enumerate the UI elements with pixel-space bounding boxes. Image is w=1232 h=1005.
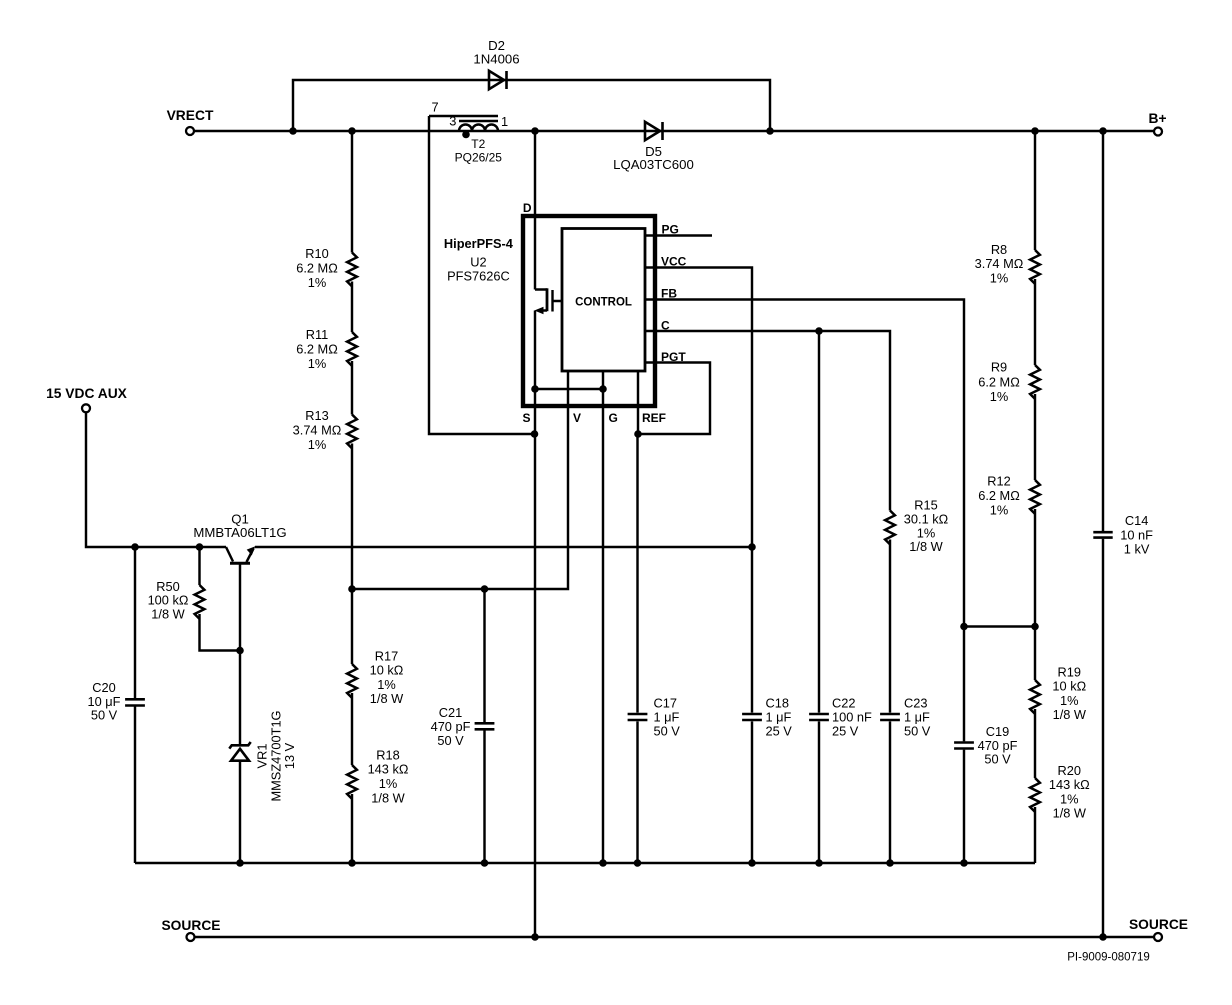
svg-text:VRECT: VRECT [167, 108, 214, 123]
svg-text:1%: 1% [308, 356, 327, 371]
svg-text:C23: C23 [904, 696, 927, 711]
svg-text:R17: R17 [375, 648, 398, 663]
svg-text:S: S [522, 411, 530, 425]
svg-text:R18: R18 [376, 747, 399, 762]
svg-text:PGT: PGT [661, 350, 686, 364]
svg-text:VCC: VCC [661, 255, 687, 269]
svg-text:1%: 1% [379, 776, 398, 791]
svg-text:B+: B+ [1148, 111, 1166, 126]
svg-text:PI-9009-080719: PI-9009-080719 [1067, 952, 1149, 964]
svg-text:1%: 1% [990, 389, 1009, 404]
svg-text:1%: 1% [990, 271, 1009, 286]
svg-text:7: 7 [431, 100, 438, 115]
svg-text:C: C [661, 319, 670, 333]
svg-text:6.2 MΩ: 6.2 MΩ [978, 488, 1020, 503]
svg-text:50 V: 50 V [904, 724, 931, 739]
svg-text:1%: 1% [1060, 791, 1079, 806]
svg-text:100 kΩ: 100 kΩ [148, 593, 189, 608]
svg-text:1%: 1% [377, 677, 396, 692]
svg-text:1/8 W: 1/8 W [1053, 707, 1087, 722]
svg-text:FB: FB [661, 287, 677, 301]
svg-text:C14: C14 [1125, 513, 1148, 528]
svg-text:CONTROL: CONTROL [575, 297, 632, 309]
svg-text:T2: T2 [471, 137, 485, 151]
svg-text:143 kΩ: 143 kΩ [1049, 777, 1090, 792]
svg-text:1N4006: 1N4006 [473, 52, 519, 67]
svg-text:10 kΩ: 10 kΩ [370, 663, 404, 678]
svg-text:G: G [609, 411, 618, 425]
svg-text:1%: 1% [990, 502, 1009, 517]
svg-text:1%: 1% [1060, 693, 1079, 708]
svg-text:R12: R12 [987, 474, 1010, 489]
svg-text:R9: R9 [991, 360, 1007, 375]
svg-text:1 μF: 1 μF [904, 709, 930, 724]
svg-text:50 V: 50 V [654, 724, 681, 739]
svg-text:PFS7626C: PFS7626C [447, 269, 510, 284]
svg-text:1/8 W: 1/8 W [151, 607, 185, 622]
svg-text:3: 3 [449, 114, 456, 129]
svg-text:6.2 MΩ: 6.2 MΩ [296, 261, 338, 276]
svg-text:50 V: 50 V [984, 752, 1011, 767]
svg-text:6.2 MΩ: 6.2 MΩ [296, 342, 338, 357]
svg-text:1 kV: 1 kV [1124, 541, 1150, 556]
svg-text:1/8 W: 1/8 W [370, 691, 404, 706]
svg-text:1 μF: 1 μF [654, 709, 680, 724]
svg-text:1: 1 [501, 114, 508, 129]
svg-text:C20: C20 [92, 680, 115, 695]
svg-text:MMBTA06LT1G: MMBTA06LT1G [193, 525, 286, 540]
svg-text:PQ26/25: PQ26/25 [455, 151, 503, 165]
svg-text:1 μF: 1 μF [766, 709, 792, 724]
svg-text:470 pF: 470 pF [431, 719, 471, 734]
svg-text:R13: R13 [305, 408, 328, 423]
svg-text:25 V: 25 V [832, 724, 859, 739]
svg-text:C21: C21 [439, 705, 462, 720]
svg-text:HiperPFS-4: HiperPFS-4 [444, 236, 514, 251]
svg-text:10 kΩ: 10 kΩ [1052, 679, 1086, 694]
svg-text:470 pF: 470 pF [978, 738, 1018, 753]
svg-text:C18: C18 [766, 696, 789, 711]
svg-text:SOURCE: SOURCE [1129, 917, 1188, 932]
svg-text:C19: C19 [986, 724, 1009, 739]
svg-text:1/8 W: 1/8 W [1053, 806, 1087, 821]
svg-text:1%: 1% [308, 437, 327, 452]
svg-text:13 V: 13 V [282, 742, 297, 769]
svg-text:R15: R15 [914, 497, 937, 512]
svg-text:V: V [573, 411, 581, 425]
svg-text:SOURCE: SOURCE [161, 918, 220, 933]
svg-text:U2: U2 [470, 255, 486, 270]
svg-text:100 nF: 100 nF [832, 709, 872, 724]
svg-text:D: D [523, 201, 532, 215]
svg-text:C17: C17 [654, 696, 677, 711]
svg-text:50 V: 50 V [437, 733, 464, 748]
svg-text:PG: PG [662, 223, 679, 237]
svg-text:1/8 W: 1/8 W [909, 539, 943, 554]
svg-text:143 kΩ: 143 kΩ [368, 762, 409, 777]
svg-text:50 V: 50 V [91, 708, 118, 723]
svg-text:REF: REF [642, 411, 666, 425]
svg-text:LQA03TC600: LQA03TC600 [613, 157, 694, 172]
svg-text:R19: R19 [1058, 664, 1081, 679]
svg-text:R11: R11 [306, 327, 329, 342]
svg-text:1/8 W: 1/8 W [371, 790, 405, 805]
svg-text:25 V: 25 V [766, 724, 793, 739]
svg-text:3.74 MΩ: 3.74 MΩ [975, 256, 1024, 271]
svg-text:R8: R8 [991, 242, 1007, 257]
svg-text:6.2 MΩ: 6.2 MΩ [978, 374, 1020, 389]
svg-text:VR1: VR1 [255, 744, 270, 769]
svg-text:R20: R20 [1058, 763, 1081, 778]
svg-text:1%: 1% [308, 275, 327, 290]
svg-text:C22: C22 [832, 696, 855, 711]
svg-text:15 VDC AUX: 15 VDC AUX [46, 386, 128, 401]
svg-text:R10: R10 [305, 246, 328, 261]
svg-text:3.74 MΩ: 3.74 MΩ [293, 423, 342, 438]
